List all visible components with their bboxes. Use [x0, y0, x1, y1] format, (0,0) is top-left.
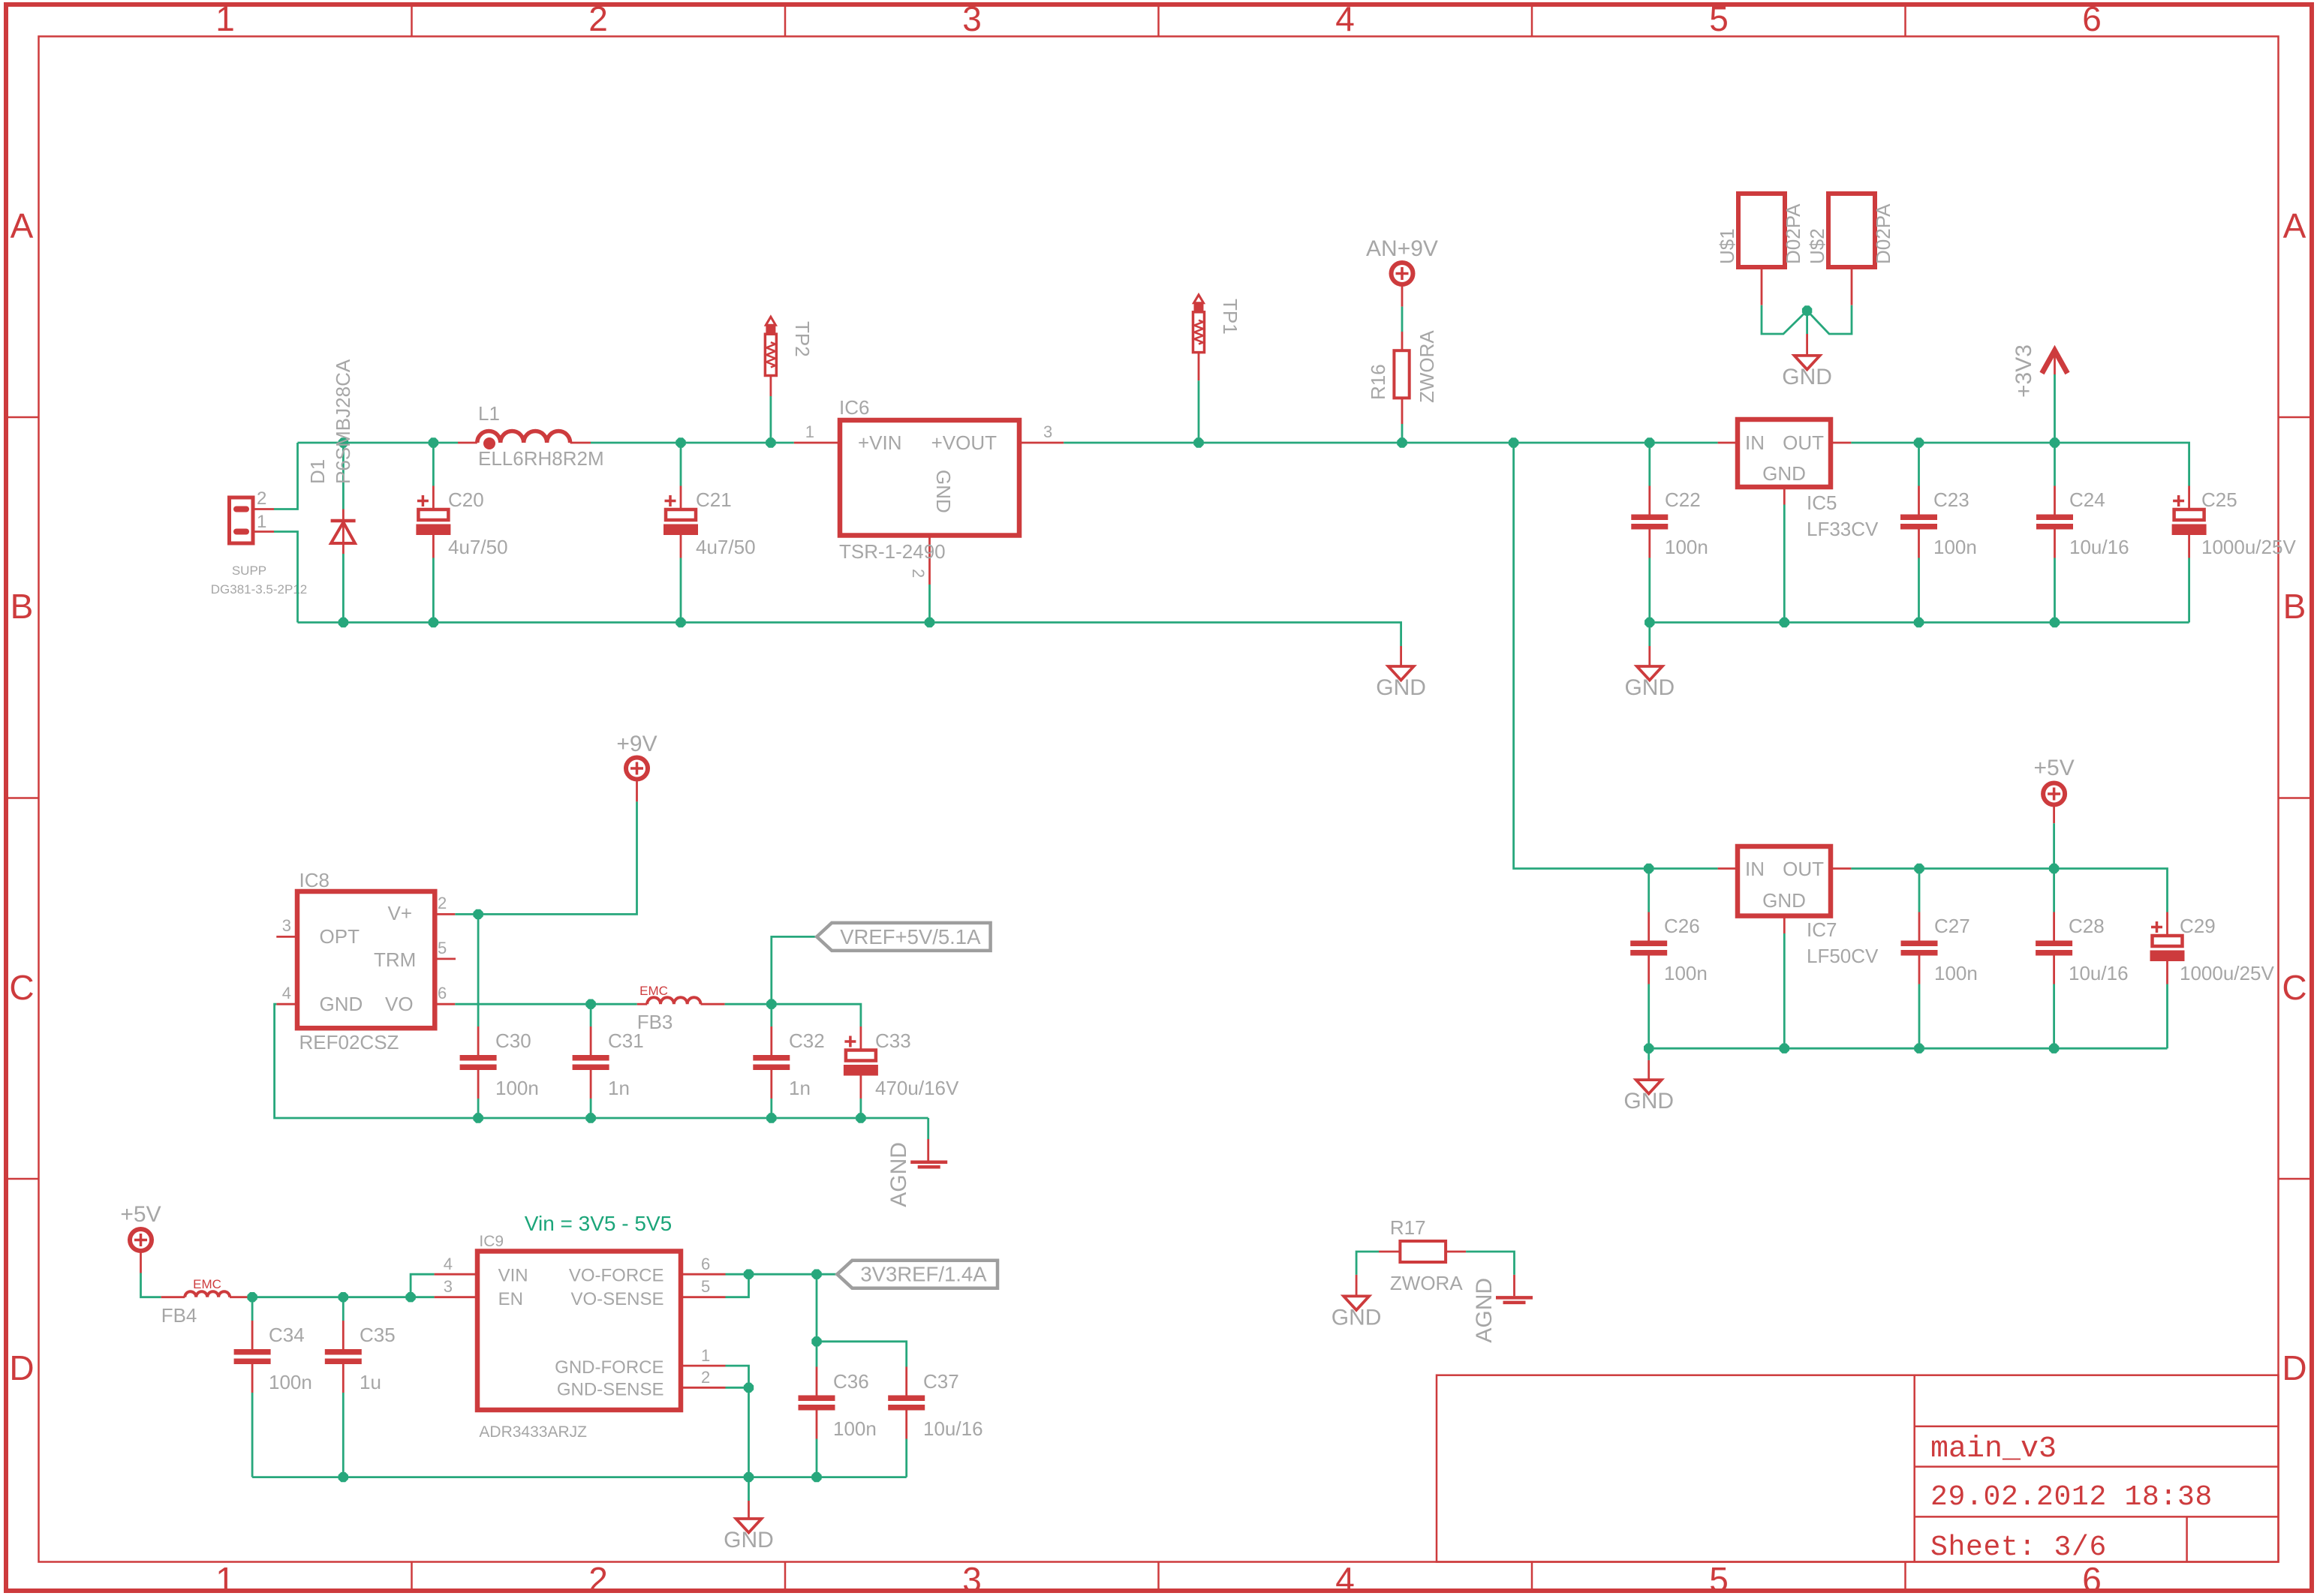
svg-text:FB3: FB3: [637, 1011, 673, 1033]
junction C36 C37 feed: [811, 1336, 821, 1346]
junction C31 bottom: [585, 1113, 595, 1123]
svg-text:TRM: TRM: [374, 948, 416, 971]
wire VO-FORCE line: [726, 1273, 838, 1276]
svg-text:2: 2: [588, 1560, 608, 1596]
junction C22 top: [1644, 437, 1654, 447]
svg-text:C26: C26: [1664, 915, 1700, 937]
wire GND bus: [298, 623, 1401, 647]
junction D1 top: [339, 437, 348, 447]
svg-text:D1: D1: [306, 459, 329, 484]
svg-text:L1: L1: [478, 402, 500, 425]
svg-text:100n: 100n: [833, 1417, 877, 1440]
junction C20 top: [429, 437, 438, 447]
svg-text:AGND: AGND: [886, 1142, 911, 1207]
capacitor C34 100n: [234, 1297, 312, 1477]
svg-text:3: 3: [1043, 422, 1052, 441]
svg-text:C21: C21: [696, 488, 732, 511]
capacitor C20 4u7/50: [416, 443, 507, 623]
wire IC9 GND down: [748, 1387, 750, 1477]
ground GND below IC9: [724, 1477, 774, 1552]
wire GND-FORCE line: [726, 1366, 749, 1387]
junction D1 bottom: [339, 618, 348, 627]
power +5V at FB4: [120, 1202, 161, 1273]
svg-text:C: C: [9, 968, 34, 1007]
svg-text:+5V: +5V: [2033, 756, 2074, 780]
junction C21 top: [676, 437, 685, 447]
wire IC5 GND to bus: [1783, 505, 1786, 623]
component U$2 D02PA: [1806, 194, 1894, 305]
svg-text:VO-FORCE: VO-FORCE: [569, 1266, 664, 1286]
svg-text:10u/16: 10u/16: [2069, 962, 2129, 984]
junction TP2: [766, 437, 775, 447]
svg-text:TSR-1-2490: TSR-1-2490: [839, 540, 946, 563]
junction IC7 GND bottom: [1780, 1044, 1789, 1053]
svg-text:1: 1: [215, 1560, 235, 1596]
svg-text:5: 5: [1709, 0, 1729, 38]
svg-text:C23: C23: [1933, 488, 1969, 511]
ground GND below C26: [1623, 1048, 1674, 1114]
junction IC6 GND at bus: [925, 618, 934, 627]
ferrite bead FB4 EMC: [161, 1277, 250, 1327]
svg-text:100n: 100n: [1665, 536, 1708, 558]
title block: [1437, 1375, 2279, 1564]
svg-text:ELL6RH8R2M: ELL6RH8R2M: [478, 447, 604, 470]
capacitor C30 100n: [460, 914, 539, 1118]
wire IC8 GND to AGND bus: [275, 1004, 928, 1118]
svg-text:5: 5: [701, 1277, 710, 1296]
capacitor C28 10u/16: [2036, 869, 2128, 1049]
capacitor C24 10u/16: [2036, 443, 2129, 623]
svg-text:C36: C36: [833, 1370, 869, 1393]
svg-text:EMC: EMC: [639, 984, 668, 998]
svg-text:IC8: IC8: [299, 869, 329, 891]
ferrite bead FB3 EMC: [637, 984, 725, 1033]
svg-text:EMC: EMC: [193, 1277, 221, 1291]
svg-text:TP2: TP2: [791, 321, 814, 357]
svg-text:D: D: [9, 1348, 34, 1387]
svg-text:2: 2: [438, 894, 447, 912]
capacitor C37 10u/16: [888, 1367, 982, 1477]
svg-text:OUT: OUT: [1783, 431, 1824, 454]
wire VOUT rail to IC5: [1064, 442, 1717, 444]
svg-text:2: 2: [909, 569, 928, 578]
voltage converter IC6 TSR-1-2490: [794, 396, 1064, 585]
junction IC5 GND bottom: [1780, 618, 1789, 627]
capacitor C31 1n: [573, 1004, 644, 1118]
svg-text:GND-SENSE: GND-SENSE: [557, 1379, 664, 1399]
wire IC9 bus: [252, 1476, 907, 1478]
capacitor C25 1000u/25V: [2172, 486, 2297, 623]
svg-text:4u7/50: 4u7/50: [448, 536, 508, 558]
svg-text:C27: C27: [1934, 915, 1970, 937]
svg-text:C: C: [2282, 968, 2306, 1007]
svg-text:D02PA: D02PA: [1782, 203, 1804, 264]
power AN+9V: [1366, 236, 1438, 284]
svg-text:D02PA: D02PA: [1872, 203, 1894, 264]
component U$1 D02PA: [1716, 194, 1804, 305]
svg-text:10u/16: 10u/16: [923, 1417, 983, 1440]
svg-text:1n: 1n: [608, 1077, 630, 1099]
svg-text:5: 5: [1709, 1560, 1729, 1596]
junction C31 top: [585, 999, 595, 1009]
junction C24 bottom: [2050, 618, 2060, 627]
wire FB3 to VREF node: [725, 1004, 861, 1026]
junction C28 top: [2049, 864, 2059, 873]
wire +9V to IC8 V+: [455, 801, 636, 914]
svg-text:GND: GND: [1782, 365, 1832, 389]
svg-text:+VOUT: +VOUT: [931, 431, 998, 454]
svg-text:3: 3: [962, 1560, 982, 1596]
junction IC9 VIN branch: [405, 1292, 415, 1302]
ground AGND at R17: [1472, 1275, 1533, 1343]
net tag VREF+5V/5.1A: [817, 923, 990, 951]
junction C21 bottom: [676, 618, 685, 627]
svg-text:DG381-3.5-2P12: DG381-3.5-2P12: [211, 582, 308, 597]
regulator IC7 LF50CV: [1718, 846, 1879, 967]
wire R17 right to AGND: [1466, 1252, 1514, 1275]
svg-text:GND: GND: [1624, 675, 1675, 700]
svg-text:2: 2: [257, 488, 266, 509]
junction VREF node: [766, 999, 776, 1009]
svg-text:TP1: TP1: [1219, 299, 1241, 335]
svg-text:GND: GND: [1623, 1089, 1674, 1114]
svg-text:D: D: [2282, 1348, 2306, 1387]
wire VIN9 to IC7: [1514, 443, 1718, 869]
junction C28 bottom: [2049, 1044, 2059, 1053]
svg-text:R16: R16: [1367, 364, 1389, 400]
svg-text:1000u/25V: 1000u/25V: [2180, 962, 2274, 984]
svg-text:4: 4: [1335, 0, 1355, 38]
junction C35 top: [339, 1292, 348, 1302]
svg-text:A: A: [11, 206, 34, 245]
svg-text:GND: GND: [1332, 1305, 1382, 1330]
resistor R17 ZWORA: [1379, 1216, 1466, 1294]
svg-text:C37: C37: [923, 1370, 959, 1393]
svg-text:GND: GND: [320, 993, 363, 1015]
svg-text:1n: 1n: [789, 1077, 811, 1099]
svg-text:SUPP: SUPP: [232, 564, 266, 578]
wire +5V rail: [1851, 869, 2167, 912]
wire IC7 GND bus: [1649, 1047, 2168, 1050]
wire VO-SENSE up: [726, 1274, 749, 1297]
svg-text:3: 3: [962, 0, 982, 38]
svg-text:+VIN: +VIN: [858, 431, 902, 454]
junction IC7 feed: [1509, 437, 1518, 447]
svg-text:C20: C20: [448, 488, 484, 511]
svg-text:ZWORA: ZWORA: [1416, 330, 1438, 403]
capacitor C29 1000u/25V: [2150, 912, 2275, 1049]
svg-text:VO: VO: [385, 993, 414, 1015]
svg-text:GND-FORCE: GND-FORCE: [555, 1357, 664, 1378]
svg-text:R17: R17: [1390, 1216, 1426, 1239]
svg-text:EN: EN: [498, 1289, 523, 1309]
svg-text:3V3REF/1.4A: 3V3REF/1.4A: [860, 1263, 987, 1286]
svg-text:U$2: U$2: [1806, 228, 1828, 264]
wire FB4 to IC9 EN: [250, 1296, 435, 1298]
svg-text:100n: 100n: [269, 1371, 312, 1393]
wire SUPP pin1 to GND bus: [274, 532, 298, 623]
svg-text:B: B: [11, 587, 34, 626]
svg-text:B: B: [2283, 587, 2306, 626]
wire right GND bus: [1650, 621, 2189, 624]
svg-text:6: 6: [2082, 0, 2102, 38]
capacitor C35 1u: [325, 1297, 396, 1477]
junction C24 top: [2050, 437, 2060, 447]
svg-text:IN: IN: [1745, 431, 1765, 454]
ground GND at R17: [1332, 1275, 1382, 1330]
resistor R16 ZWORA: [1367, 284, 1438, 443]
svg-text:ZWORA: ZWORA: [1390, 1272, 1463, 1294]
power +9V: [616, 732, 657, 801]
svg-text:AN+9V: AN+9V: [1366, 236, 1438, 261]
junction C32 bottom: [766, 1113, 776, 1123]
ground AGND below IC8 section: [886, 1118, 947, 1207]
capacitor C23 100n: [1900, 443, 1977, 623]
svg-text:LF50CV: LF50CV: [1807, 945, 1879, 967]
svg-text:AGND: AGND: [1472, 1278, 1497, 1343]
svg-text:Vin = 3V5 - 5V5: Vin = 3V5 - 5V5: [525, 1212, 672, 1235]
svg-text:100n: 100n: [1933, 536, 1977, 558]
wire IC8 VO line: [455, 1003, 636, 1005]
wire U$1 to GND node: [1762, 305, 1807, 334]
svg-text:10u/16: 10u/16: [2069, 536, 2129, 558]
svg-text:1000u/25V: 1000u/25V: [2201, 536, 2296, 558]
junction R16 bottom: [1397, 437, 1407, 447]
svg-text:4u7/50: 4u7/50: [696, 536, 756, 558]
wire SUPP pin2 to VIN9 rail: [274, 443, 298, 509]
svg-text:1u: 1u: [360, 1371, 381, 1393]
junction U$ GND: [1802, 305, 1812, 315]
capacitor C32 1n: [753, 1004, 824, 1118]
svg-text:IC5: IC5: [1807, 491, 1837, 514]
svg-text:IC9: IC9: [479, 1233, 504, 1250]
ground GND below bus: [1376, 646, 1426, 700]
svg-text:C22: C22: [1665, 488, 1701, 511]
wire VIN9 rail right of L1: [591, 442, 794, 444]
voltage reference IC9 ADR3433ARJZ: [435, 1233, 726, 1441]
junction C34 top: [247, 1292, 257, 1302]
svg-text:ADR3433ARJZ: ADR3433ARJZ: [479, 1423, 587, 1441]
svg-text:IC7: IC7: [1807, 918, 1837, 941]
svg-text:GND: GND: [932, 470, 955, 513]
svg-text:29.02.2012 18:38: 29.02.2012 18:38: [1930, 1481, 2213, 1513]
svg-text:+5V: +5V: [120, 1202, 161, 1227]
svg-text:C30: C30: [495, 1029, 531, 1052]
svg-text:Sheet: 3/6: Sheet: 3/6: [1930, 1531, 2107, 1564]
svg-text:OPT: OPT: [320, 925, 360, 948]
svg-text:A: A: [2283, 206, 2306, 245]
diode D1 P6SMBJ28CA: [306, 359, 356, 622]
svg-text:6: 6: [438, 984, 447, 1002]
svg-text:1: 1: [257, 512, 266, 532]
svg-text:C35: C35: [360, 1324, 396, 1346]
svg-text:GND: GND: [1762, 889, 1806, 912]
svg-text:C29: C29: [2180, 915, 2216, 937]
capacitor C36 100n: [799, 1342, 877, 1477]
junction GND sense join: [744, 1383, 754, 1393]
svg-text:+9V: +9V: [616, 732, 657, 756]
testpoint TP2: [765, 317, 814, 443]
power +3V3: [2012, 344, 2068, 443]
svg-text:LF33CV: LF33CV: [1807, 518, 1879, 540]
svg-text:V+: V+: [388, 902, 413, 924]
junction C23 top: [1914, 437, 1924, 447]
junction C23 bottom: [1914, 618, 1924, 627]
svg-text:VO-SENSE: VO-SENSE: [570, 1289, 664, 1309]
wire IC7 GND to bus: [1783, 933, 1786, 1048]
svg-text:IC6: IC6: [839, 396, 869, 419]
svg-text:100n: 100n: [1664, 962, 1708, 984]
svg-text:100n: 100n: [495, 1077, 539, 1099]
inductor L1 ELL6RH8R2M: [458, 402, 604, 470]
svg-text:OUT: OUT: [1783, 858, 1824, 880]
svg-text:C33: C33: [875, 1029, 911, 1052]
ground GND below U$1 U$2: [1782, 311, 1832, 389]
junction C36 bottom: [811, 1472, 821, 1482]
wire 3V3REF down to caps: [816, 1274, 818, 1342]
svg-text:2: 2: [588, 0, 608, 38]
junction C30 top: [473, 909, 483, 919]
svg-text:4: 4: [282, 984, 291, 1002]
svg-text:GND: GND: [1376, 675, 1426, 700]
svg-text:3: 3: [282, 916, 291, 935]
svg-text:4: 4: [444, 1255, 453, 1273]
svg-text:6: 6: [2082, 1560, 2102, 1596]
junction C33 bottom: [856, 1113, 865, 1123]
svg-text:GND: GND: [1762, 462, 1806, 485]
connector SUPP DG381-3.5-2P12: [211, 488, 308, 597]
regulator IC5 LF33CV: [1718, 419, 1879, 540]
voltage reference IC8 REF02CSZ: [276, 869, 456, 1053]
svg-text:5: 5: [438, 939, 447, 957]
junction C26 top: [1644, 864, 1653, 873]
svg-text:VIN: VIN: [498, 1266, 528, 1286]
svg-text:GND: GND: [724, 1528, 774, 1552]
svg-text:100n: 100n: [1934, 962, 1978, 984]
svg-text:VREF+5V/5.1A: VREF+5V/5.1A: [840, 925, 981, 948]
svg-text:2: 2: [701, 1368, 710, 1387]
svg-text:C25: C25: [2201, 488, 2237, 511]
wire R17 left to GND: [1356, 1252, 1379, 1275]
svg-text:IN: IN: [1745, 858, 1765, 880]
junction IC9 GND at bus: [744, 1472, 754, 1482]
ground GND below C22: [1624, 623, 1675, 701]
power +5V above C28: [2033, 756, 2074, 869]
svg-text:U$1: U$1: [1716, 228, 1738, 264]
svg-text:6: 6: [701, 1255, 710, 1273]
wire to C37: [817, 1342, 907, 1367]
wire VREF node up: [772, 936, 817, 1004]
capacitor C21 4u7/50: [664, 443, 756, 623]
junction TP1: [1193, 437, 1203, 447]
svg-text:1: 1: [215, 0, 235, 38]
capacitor C33 470u/16V: [844, 1026, 959, 1118]
wire +5V to FB4: [141, 1273, 161, 1297]
junction C27 bottom: [1914, 1044, 1924, 1053]
wire GND-SENSE line: [726, 1387, 749, 1389]
junction C22 bottom: [1644, 618, 1654, 627]
junction VO sense join: [744, 1270, 754, 1279]
junction C26 bottom: [1644, 1044, 1653, 1053]
svg-text:4: 4: [1335, 1560, 1355, 1596]
label Vin note: [525, 1212, 672, 1235]
capacitor C22 100n: [1631, 443, 1708, 623]
capacitor C26 100n: [1630, 869, 1708, 1049]
junction 3V3REF node: [811, 1270, 821, 1279]
wire U$2 to GND node: [1807, 305, 1852, 334]
net tag 3V3REF/1.4A: [837, 1261, 998, 1288]
svg-text:470u/16V: 470u/16V: [875, 1077, 959, 1099]
junction C35 bottom: [339, 1472, 348, 1482]
svg-text:3: 3: [444, 1277, 453, 1296]
svg-text:+3V3: +3V3: [2012, 344, 2036, 398]
svg-text:1: 1: [701, 1346, 710, 1365]
svg-text:C24: C24: [2069, 488, 2105, 511]
junction C20 bottom: [429, 618, 438, 627]
svg-text:P6SMBJ28CA: P6SMBJ28CA: [332, 359, 354, 484]
svg-text:1: 1: [805, 422, 814, 441]
svg-text:main_v3: main_v3: [1930, 1432, 2057, 1466]
junction C27 top: [1914, 864, 1924, 873]
wire VIN9 rail left: [298, 442, 459, 444]
junction C30 bottom: [473, 1113, 483, 1123]
svg-text:FB4: FB4: [161, 1304, 197, 1327]
testpoint TP1: [1193, 295, 1242, 443]
wire IC6 GND pin to bus: [928, 585, 931, 623]
wire +3V3 rail: [1851, 443, 2189, 486]
svg-text:C34: C34: [269, 1324, 305, 1346]
wire to IC9 VIN: [411, 1274, 435, 1297]
svg-text:C32: C32: [789, 1029, 825, 1052]
svg-text:C28: C28: [2069, 915, 2105, 937]
capacitor C27 100n: [1901, 869, 1978, 1049]
svg-text:REF02CSZ: REF02CSZ: [299, 1031, 399, 1053]
